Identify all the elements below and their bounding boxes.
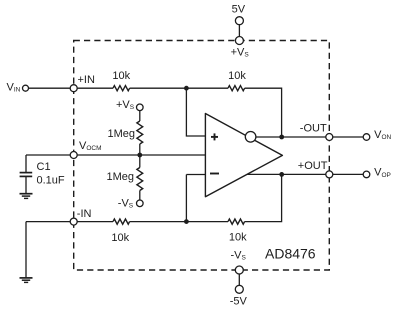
svg-text:10k: 10k: [112, 70, 130, 82]
svg-text:10k: 10k: [229, 232, 247, 244]
svg-text:0.1uF: 0.1uF: [37, 175, 65, 187]
svg-text:-IN: -IN: [77, 208, 92, 220]
svg-text:1Meg: 1Meg: [107, 171, 135, 183]
svg-text:-5V: -5V: [230, 296, 248, 308]
svg-text:C1: C1: [37, 161, 51, 173]
svg-text:10k: 10k: [228, 70, 246, 82]
svg-text:-OUT: -OUT: [300, 123, 327, 135]
svg-text:AD8476: AD8476: [265, 245, 316, 261]
svg-text:5V: 5V: [232, 4, 246, 16]
svg-text:+IN: +IN: [78, 74, 95, 86]
svg-text:1Meg: 1Meg: [108, 128, 136, 140]
svg-text:+OUT: +OUT: [298, 160, 328, 172]
svg-text:10k: 10k: [111, 232, 129, 244]
